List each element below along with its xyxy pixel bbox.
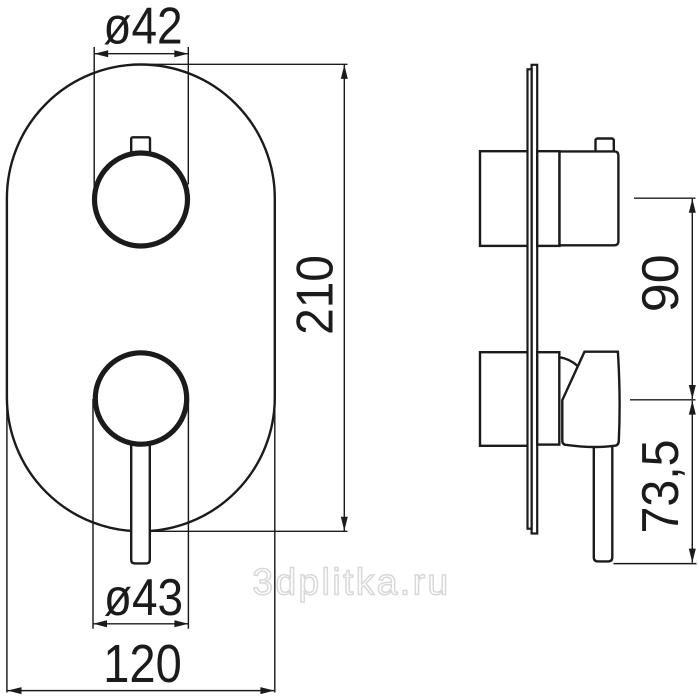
svg-text:120: 120 [103,633,182,694]
svg-text:73,5: 73,5 [631,439,689,533]
svg-text:ø43: ø43 [104,569,183,626]
svg-text:90: 90 [632,254,690,312]
svg-text:3dplitka.ru: 3dplitka.ru [252,562,450,603]
svg-text:210: 210 [286,255,344,335]
svg-text:ø42: ø42 [103,0,182,55]
